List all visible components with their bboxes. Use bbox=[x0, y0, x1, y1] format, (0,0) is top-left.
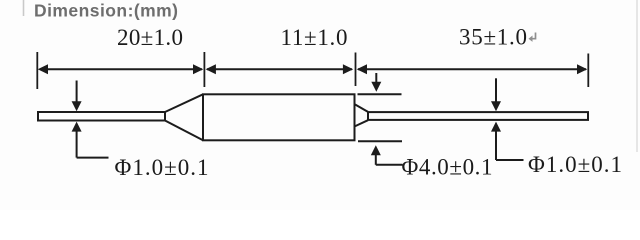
body diameter down arrow bbox=[371, 73, 381, 92]
right lead up arrow with leader bbox=[491, 122, 524, 160]
arrow left of 20 bbox=[38, 64, 48, 74]
svg-text:11±1.0: 11±1.0 bbox=[281, 25, 348, 50]
arrow left of 35 bbox=[357, 64, 367, 74]
svg-text:Φ1.0±0.1: Φ1.0±0.1 bbox=[115, 155, 209, 180]
left lead up arrow with leader bbox=[72, 122, 109, 158]
left lead down arrow bbox=[72, 81, 82, 112]
dimension line 11 bbox=[207, 68, 352, 70]
body diameter up arrow with leader bbox=[371, 145, 403, 165]
left lead bbox=[38, 112, 165, 121]
fuse body bbox=[203, 94, 355, 140]
dimension line 20 bbox=[40, 68, 202, 70]
left taper top bbox=[165, 94, 203, 112]
cell border right bbox=[636, 0, 638, 152]
body top extension line bbox=[358, 93, 402, 95]
arrow right of 35 bbox=[577, 64, 587, 74]
svg-text:Φ4.0±0.1: Φ4.0±0.1 bbox=[402, 155, 493, 180]
left taper bottom bbox=[165, 121, 203, 141]
cell border left bbox=[23, 0, 25, 16]
svg-text:Dimension:(mm): Dimension:(mm) bbox=[34, 1, 178, 21]
right taper top bbox=[355, 104, 368, 112]
extension line 2 bbox=[203, 52, 205, 87]
extension line 4 bbox=[587, 54, 589, 88]
arrow right of 11 bbox=[343, 64, 353, 74]
arrow right of 20 bbox=[193, 64, 203, 74]
paragraph return mark bbox=[529, 33, 536, 42]
right lead down arrow bbox=[491, 78, 501, 111]
arrow left of 11 bbox=[206, 64, 216, 74]
extension line 3 bbox=[355, 53, 357, 87]
right taper bottom bbox=[355, 120, 368, 126]
right lead bbox=[368, 112, 588, 120]
svg-text:Φ1.0±0.1: Φ1.0±0.1 bbox=[528, 152, 622, 177]
dimension line 35 bbox=[358, 68, 586, 70]
body bottom extension line bbox=[358, 140, 402, 142]
svg-text:20±1.0: 20±1.0 bbox=[117, 25, 183, 50]
svg-text:35±1.0: 35±1.0 bbox=[459, 25, 527, 50]
extension line 1 bbox=[36, 52, 38, 89]
